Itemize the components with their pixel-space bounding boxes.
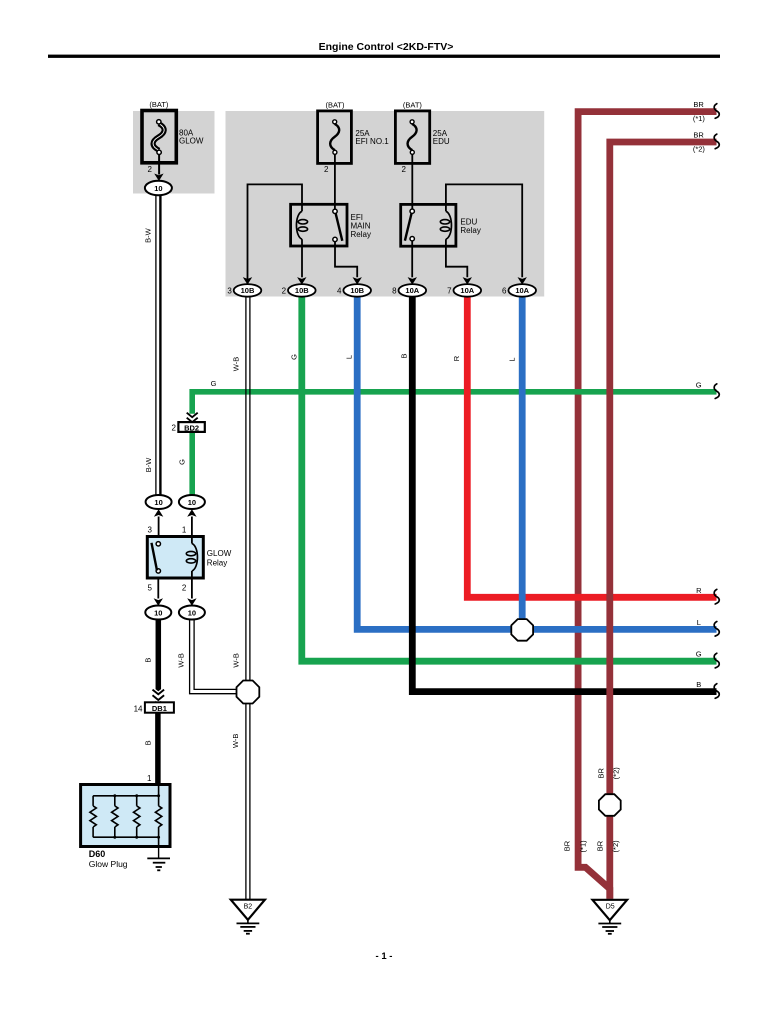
svg-text:3: 3 <box>148 526 153 535</box>
wire fuse EFI to relay switch <box>334 155 336 210</box>
wire W-B from octagon down to B2 ground (double line) <box>245 704 247 902</box>
svg-text:Relay: Relay <box>351 230 371 239</box>
connector oval 4-10B <box>343 284 371 297</box>
svg-text:(*1): (*1) <box>579 840 588 853</box>
connector oval 10 (to GLOW relay pin 3) <box>146 495 172 509</box>
connector oval 7-10A <box>454 284 482 297</box>
svg-text:1: 1 <box>182 526 187 535</box>
connector oval 6-10A <box>508 284 536 297</box>
svg-text:- 1 -: - 1 - <box>376 951 393 962</box>
wire end curly G2 <box>714 653 719 668</box>
wire W-B from connector 3-10B down to octagon (double line) <box>245 296 247 682</box>
relay EFI MAIN box <box>291 204 347 246</box>
svg-text:14: 14 <box>134 705 143 714</box>
svg-text:Relay: Relay <box>460 226 480 235</box>
wire end curly G (BD2 line) <box>714 384 719 399</box>
relay GLOW box <box>147 537 203 579</box>
svg-text:6: 6 <box>502 287 507 296</box>
svg-text:10A: 10A <box>515 286 529 295</box>
svg-text:B: B <box>400 353 409 358</box>
svg-text:GLOW: GLOW <box>179 137 204 146</box>
wire B from connector 8-10A down and right to edge <box>412 296 716 692</box>
connector oval 3-10B <box>234 284 262 297</box>
svg-text:BR: BR <box>562 840 571 851</box>
connector oval 10 (to GLOW relay pin 1) <box>179 495 205 509</box>
connector DB1 <box>145 702 174 712</box>
junction octagon on BR wire <box>599 794 621 816</box>
svg-text:10A: 10A <box>460 286 474 295</box>
wire L from connector 6-10A down to junction octagon <box>519 296 526 621</box>
svg-text:B2: B2 <box>244 904 253 911</box>
svg-text:2: 2 <box>282 287 287 296</box>
ground symbol below D5 <box>609 920 611 923</box>
wire relay EFI switch to connector 4-10B <box>335 242 357 278</box>
wire relay EFI coil feed from connector 3-10B <box>248 184 303 284</box>
svg-text:10: 10 <box>154 608 162 617</box>
wire relay EDU coil to connector 7-10A <box>446 246 467 277</box>
wire relay EDU switch to connector 8-10A <box>411 241 413 277</box>
svg-text:W-B: W-B <box>232 653 241 667</box>
svg-text:7: 7 <box>447 287 452 296</box>
svg-text:(BAT): (BAT) <box>325 101 345 110</box>
svg-text:2: 2 <box>172 424 177 433</box>
svg-text:10B: 10B <box>350 286 364 295</box>
svg-text:2: 2 <box>148 165 153 174</box>
wire from fuse 80A to connector 10 <box>158 155 160 175</box>
wire end curly B <box>714 684 719 699</box>
svg-text:BD2: BD2 <box>184 423 199 432</box>
connector oval 10 (below GLOW relay pin 2) <box>179 606 205 620</box>
wire relay EDU coil feed to connector 6-10A <box>446 184 522 277</box>
svg-text:5: 5 <box>148 584 153 593</box>
glow plug resistor element 3 <box>134 806 140 827</box>
title rule <box>48 55 720 58</box>
relay GLOW switch <box>156 542 160 546</box>
fuse 80A GLOW box <box>142 111 176 163</box>
svg-text:3: 3 <box>227 287 232 296</box>
connector BD2 <box>178 422 204 432</box>
wire B-W from connector 10 down to GLOW relay connector (double line) <box>155 195 157 496</box>
svg-text:BR: BR <box>595 840 604 851</box>
wire fuse EDU to relay switch <box>411 155 413 210</box>
wire end curly BR2 <box>714 134 719 149</box>
wire G from connector 2-10B down and right to edge <box>302 296 717 662</box>
ground triangle D5 <box>593 900 628 920</box>
junction block gray panel (EFI/EDU relays) <box>226 111 545 297</box>
connector oval 2-10B <box>288 284 316 297</box>
ground symbol below B2 <box>247 920 249 923</box>
splice chevrons above BD2 <box>187 413 198 423</box>
wire G to BD2 connector (horizontal near-top green) <box>192 392 716 414</box>
svg-text:D5: D5 <box>606 904 615 911</box>
svg-text:(BAT): (BAT) <box>403 101 423 110</box>
svg-text:2: 2 <box>402 165 407 174</box>
svg-text:10: 10 <box>154 184 162 193</box>
svg-text:10B: 10B <box>241 286 255 295</box>
svg-text:R: R <box>452 355 461 361</box>
svg-text:B-W: B-W <box>144 227 153 243</box>
fuse 25A EDU element <box>408 124 417 150</box>
fuse 80A GLOW element <box>153 124 164 151</box>
svg-text:BR: BR <box>693 100 704 109</box>
glow plug resistor element 1 <box>90 806 96 827</box>
connector oval 10 (below GLOW relay pin 5) <box>145 606 171 620</box>
svg-text:W-B: W-B <box>232 357 241 371</box>
svg-text:G: G <box>696 380 702 389</box>
svg-text:10: 10 <box>154 498 162 507</box>
svg-text:G: G <box>211 379 217 388</box>
glow plug resistor element 2 <box>112 806 118 827</box>
svg-text:B: B <box>696 680 701 689</box>
svg-text:(*2): (*2) <box>611 840 620 853</box>
relay EDU box <box>401 204 456 246</box>
relay EFI MAIN switch <box>333 209 337 213</box>
glow plug resistor element 4 <box>155 806 161 827</box>
glow plug junction dots <box>113 794 116 797</box>
svg-text:GLOW: GLOW <box>207 549 232 558</box>
svg-text:G: G <box>177 459 186 465</box>
svg-text:Glow Plug: Glow Plug <box>89 859 128 869</box>
svg-text:B-W: B-W <box>144 457 153 473</box>
svg-text:2: 2 <box>182 584 187 593</box>
wire B from connector down to DB1 <box>156 619 162 702</box>
svg-text:10B: 10B <box>295 286 309 295</box>
junction block gray panel (GLOW fuse) <box>133 111 215 194</box>
svg-text:Relay: Relay <box>207 559 227 568</box>
fuse 25A EDU box <box>395 111 429 163</box>
wire GLOW relay pin 2 down-arrow to connector <box>191 578 193 599</box>
wire BR (*2) from top-right down to octagon junction <box>610 142 717 795</box>
relay EDU switch <box>410 209 414 213</box>
svg-text:(*1): (*1) <box>693 114 706 123</box>
svg-text:G: G <box>696 650 702 659</box>
relay EFI MAIN coil <box>301 204 303 211</box>
wire GLOW relay pin 3 up-arrow to connector <box>158 517 160 538</box>
svg-text:1: 1 <box>147 774 152 783</box>
glow plug D60 box <box>81 785 170 847</box>
svg-text:(BAT): (BAT) <box>149 100 169 109</box>
svg-text:B: B <box>143 740 152 745</box>
svg-text:4: 4 <box>337 287 342 296</box>
svg-text:BR: BR <box>693 131 704 140</box>
wire end curly L <box>714 622 719 637</box>
wire W-B from GLOW relay connector to octagon junction (double line) <box>190 619 237 694</box>
svg-text:Engine Control <2KD-FTV>: Engine Control <2KD-FTV> <box>319 41 454 53</box>
connector oval 10 (GLOW fuse output) <box>145 181 172 195</box>
svg-text:8: 8 <box>392 287 397 296</box>
svg-text:G: G <box>290 354 299 360</box>
wire GLOW relay pin 1 up-arrow to connector <box>191 517 193 538</box>
svg-text:B: B <box>143 658 152 663</box>
svg-text:EFI NO.1: EFI NO.1 <box>355 137 389 146</box>
wire relay EFI coil to connector 2-10B <box>301 246 303 277</box>
svg-text:10: 10 <box>188 498 196 507</box>
splice chevrons above DB1 <box>153 690 165 700</box>
svg-text:DB1: DB1 <box>152 704 167 713</box>
relay EDU coil <box>445 204 447 211</box>
wire R from connector 7-10A down and right to edge <box>467 296 716 598</box>
svg-text:10: 10 <box>188 608 196 617</box>
svg-text:BR: BR <box>597 768 606 779</box>
wire end curly BR1 <box>714 104 719 119</box>
glow plug internal rails <box>158 785 160 847</box>
connector oval 8-10A <box>399 284 427 297</box>
svg-text:D60: D60 <box>89 849 106 859</box>
svg-text:EDU: EDU <box>433 137 450 146</box>
wire GLOW relay pin 5 down-arrow to connector <box>157 578 159 599</box>
wire L from connector 4-10B down and right to edge <box>357 296 716 630</box>
wire BR (*1) from top-right, down right side, to D5 join <box>578 112 716 899</box>
fuse 25A EFI NO.1 box <box>318 111 352 163</box>
svg-text:(*2): (*2) <box>611 767 620 780</box>
svg-text:W-B: W-B <box>231 734 240 748</box>
fuse 25A EFI element <box>330 124 339 150</box>
wire BR (*2) from octagon junction down to D5 ground <box>606 815 613 899</box>
wire end curly R <box>714 589 719 604</box>
junction octagon on W-B wire <box>237 681 260 704</box>
svg-text:L: L <box>697 618 701 627</box>
ground triangle B2 <box>231 900 265 920</box>
wire B from DB1 down to glow plug <box>155 713 161 785</box>
svg-text:10A: 10A <box>405 286 419 295</box>
ground below glow plug <box>158 847 160 858</box>
svg-text:(*2): (*2) <box>693 145 706 154</box>
junction octagon on blue wire L <box>511 619 533 641</box>
relay GLOW coil <box>191 537 193 544</box>
svg-text:W-B: W-B <box>176 653 185 667</box>
svg-text:2: 2 <box>324 165 329 174</box>
svg-text:R: R <box>696 586 702 595</box>
wire G below BD2 into connector 10 <box>189 432 195 496</box>
svg-text:L: L <box>345 355 354 359</box>
svg-text:L: L <box>508 357 517 361</box>
